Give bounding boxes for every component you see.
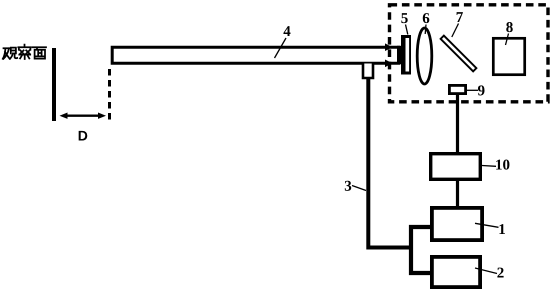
- detector 8: [493, 38, 524, 74]
- label 9 with leader: [467, 85, 485, 95]
- observation plane line: [52, 48, 56, 121]
- label D: [79, 131, 88, 141]
- bracket joining boxes 1 and 2: [411, 227, 432, 273]
- element 9 (sensor): [449, 85, 465, 93]
- box 1: [432, 208, 482, 240]
- wire 3 (vertical + horizontal to bracket): [368, 79, 410, 248]
- tube end cap: [397, 46, 401, 65]
- box 10: [431, 154, 481, 180]
- mount stub under tube: [363, 64, 373, 79]
- light ray arrow upper: [385, 43, 393, 51]
- element 5 (aperture plate): [401, 35, 411, 75]
- label 1 with leader: [475, 223, 505, 234]
- lens 6: [417, 28, 432, 84]
- label 4 with leader: [275, 26, 291, 58]
- label 10 with leader: [482, 160, 509, 170]
- wire 9 to 10: [456, 94, 459, 153]
- dashed enclosure box: [390, 5, 549, 102]
- distance arrow D: [60, 113, 107, 119]
- label 观察面 (observation plane caption): [3, 45, 46, 59]
- label 2 with leader: [475, 268, 504, 278]
- wire 10 to 1: [456, 180, 459, 208]
- label 8 with leader: [506, 22, 513, 45]
- tube 4 (collimating tube outline): [112, 47, 400, 63]
- label 3 with leader: [345, 181, 366, 191]
- label 7 with leader: [452, 12, 463, 37]
- light ray arrow lower: [385, 60, 393, 68]
- dashed offset line: [108, 69, 111, 120]
- label 5 with leader: [401, 13, 407, 34]
- box 2: [432, 257, 480, 287]
- label 6 with leader: [423, 13, 430, 34]
- mirror 7 (45-degree beamsplitter): [441, 36, 477, 72]
